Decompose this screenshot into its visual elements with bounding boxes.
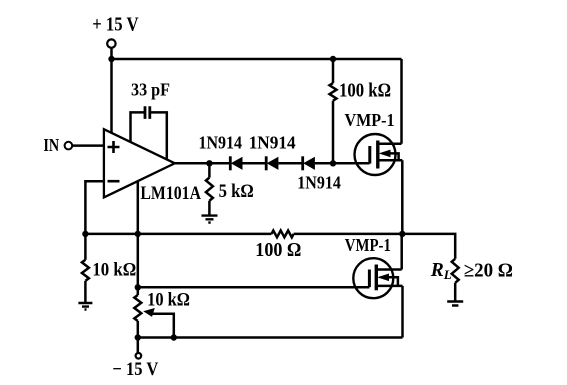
ground below 5k <box>202 216 218 223</box>
resistor 10 kOhm (left) <box>82 260 89 281</box>
svg-text:RL: RL <box>430 260 452 282</box>
svg-text:IN: IN <box>43 135 59 155</box>
resistor R 5 kOhm <box>206 178 213 201</box>
svg-text:1N914: 1N914 <box>199 133 243 153</box>
wire 5k lead <box>208 163 211 177</box>
diode D3 1N914 <box>303 156 315 170</box>
junction output node <box>399 231 405 237</box>
op-amp U1 LM101A <box>104 129 175 197</box>
wire 100 Ohm to output node <box>294 233 403 236</box>
resistor 100 Ohm <box>272 231 294 238</box>
wire 10k upper lead (left) <box>84 234 87 260</box>
junction 5k tap <box>206 160 212 166</box>
diode D2 1N914 <box>266 156 278 170</box>
wire D3 to Q1 gate <box>315 162 370 165</box>
junction wiper at bottom rail <box>171 334 177 340</box>
wire D2 to D3 <box>278 162 302 165</box>
diode D1 1N914 <box>230 156 242 170</box>
label op-amp plus input <box>108 141 120 153</box>
svg-text:+ 15 V: + 15 V <box>92 15 138 36</box>
wire minus input to feedback column <box>85 181 104 234</box>
transistor Q2 VMP-1 <box>353 258 402 298</box>
wire 10k to ground <box>84 281 87 302</box>
pot wiper arrow <box>143 308 174 338</box>
junction bottom rail left <box>135 334 141 340</box>
wire rail corner down to Q1 drain <box>400 59 403 144</box>
wire RL to ground <box>454 283 457 301</box>
wire Q2 drain up to output node <box>400 234 403 270</box>
resistor RL <box>452 259 459 283</box>
wire bottom rail <box>138 336 403 339</box>
potentiometer 10 kOhm <box>134 295 141 321</box>
svg-text:− 15 V: − 15 V <box>112 359 158 380</box>
svg-text:VMP-1: VMP-1 <box>345 235 391 255</box>
junction feedback at V-minus column <box>135 231 141 237</box>
wire D1 to D2 <box>243 162 267 165</box>
svg-text:10 kΩ: 10 kΩ <box>147 289 190 310</box>
capacitor C1 right lead <box>151 112 167 159</box>
junction Q2 gate line at V-minus column <box>135 284 141 290</box>
wire +15V lead down to op-amp V+ <box>110 48 113 134</box>
transistor Q1 VMP-1 <box>355 134 403 175</box>
resistor 100 kOhm <box>330 83 337 101</box>
svg-text:VMP-1: VMP-1 <box>345 110 395 130</box>
wire IN to + input <box>72 144 104 147</box>
wire 100k upper lead <box>332 59 335 83</box>
wire 100k lower lead to gate node <box>332 101 335 164</box>
svg-text:≥20 Ω: ≥20 Ω <box>464 260 513 281</box>
wire Q2 gate line <box>138 286 370 289</box>
node +15V terminal <box>107 39 115 47</box>
wire Q2 source down to bottom rail <box>401 286 404 338</box>
wire 5k to ground <box>208 201 211 215</box>
wire op-amp output <box>175 162 231 165</box>
ground below left 10k <box>78 303 92 310</box>
ground below RL <box>447 302 463 306</box>
svg-text:1N914: 1N914 <box>297 173 341 193</box>
node -15V terminal <box>136 353 142 359</box>
svg-text:10 kΩ: 10 kΩ <box>92 259 136 280</box>
svg-text:LM101A: LM101A <box>140 183 201 204</box>
node IN terminal <box>65 142 73 150</box>
svg-text:100 Ω: 100 Ω <box>255 240 301 261</box>
svg-text:100 kΩ: 100 kΩ <box>339 80 391 101</box>
capacitor C1 plates <box>145 106 150 119</box>
label op-amp minus input <box>108 180 120 183</box>
wire +15V top rail <box>112 58 402 61</box>
svg-text:1N914: 1N914 <box>249 133 296 153</box>
wire Q1 source down to output node <box>401 160 404 234</box>
wire output node to RL <box>402 234 455 259</box>
wire V-minus supply column <box>137 182 140 296</box>
wire pot bottom to -15V rail <box>137 321 140 353</box>
junction 100k top <box>330 56 336 62</box>
svg-text:33 pF: 33 pF <box>131 80 170 100</box>
junction +15V rail tap <box>108 56 114 62</box>
junction feedback at minus column <box>82 231 88 237</box>
junction 100k bottom at gate line <box>330 160 336 166</box>
wire feedback line (inverting input to output node) <box>85 233 271 236</box>
svg-text:5 kΩ: 5 kΩ <box>219 181 254 202</box>
capacitor C1 33 pF left lead <box>131 112 145 142</box>
